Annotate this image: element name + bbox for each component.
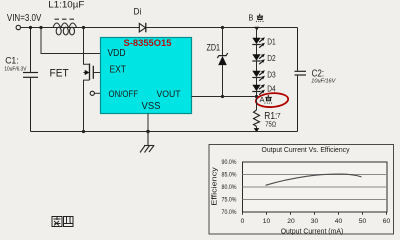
LED D3 <box>252 70 265 80</box>
chart box <box>209 145 394 235</box>
svg-text:B: B <box>249 14 254 23</box>
svg-text:10: 10 <box>263 218 271 225</box>
wire <box>256 45 258 55</box>
highlight ellipse node A <box>255 92 288 108</box>
figure number glyphs <box>52 217 73 227</box>
svg-text:FET: FET <box>50 68 69 80</box>
chart x ticks <box>243 212 387 215</box>
wire top rail left <box>21 27 298 29</box>
op-amp U1 IC S-8355 body <box>101 38 192 114</box>
svg-text:10uF/6.3V: 10uF/6.3V <box>4 67 26 73</box>
node VDD tap <box>39 26 42 29</box>
terminal ON/OFF <box>90 91 94 95</box>
svg-text:S-8355O15: S-8355O15 <box>124 38 173 49</box>
svg-text:VOUT: VOUT <box>157 88 181 99</box>
chart plot area <box>243 162 388 212</box>
zener ZD1 <box>217 28 227 97</box>
node zener bottom <box>221 95 224 98</box>
LED D1 <box>252 37 265 47</box>
svg-text:D1: D1 <box>267 36 276 46</box>
svg-text:30: 30 <box>311 218 319 225</box>
svg-text:EXT: EXT <box>110 64 127 75</box>
wire VSS <box>147 114 149 132</box>
svg-text:80.0%: 80.0% <box>222 184 237 191</box>
capacitor C2 <box>295 28 307 132</box>
resistor R1 <box>254 97 260 132</box>
wire VDD branch <box>41 28 101 54</box>
svg-text:C1:: C1: <box>5 55 18 65</box>
capacitor C1 <box>23 29 38 132</box>
svg-text:50: 50 <box>359 218 367 225</box>
wire <box>256 78 258 86</box>
svg-text:ON/OFF: ON/OFF <box>109 88 139 99</box>
svg-text:VSS: VSS <box>142 101 161 112</box>
svg-text:ZD1: ZD1 <box>207 42 221 52</box>
node B <box>254 27 259 31</box>
node VSS <box>146 130 149 133</box>
svg-text:L1:10µF: L1:10µF <box>48 0 85 10</box>
wire <box>256 61 258 71</box>
node C1 tap <box>29 26 32 29</box>
inductor L1 <box>53 19 77 35</box>
wire ON/OFF <box>95 92 101 94</box>
node A <box>255 95 258 98</box>
svg-text:10uF/16V: 10uF/16V <box>311 79 336 85</box>
svg-text:Output Current (mA): Output Current (mA) <box>281 228 344 235</box>
chart y labels <box>222 159 237 216</box>
node FET source <box>82 130 85 133</box>
svg-text:75.0%: 75.0% <box>222 197 237 204</box>
svg-text:60: 60 <box>383 218 391 225</box>
svg-text:Output Current Vs. Efficiency: Output Current Vs. Efficiency <box>262 147 350 154</box>
label A dian glyph <box>265 95 272 104</box>
wire gate to EXT <box>93 72 100 74</box>
ground <box>140 132 154 153</box>
svg-text:D3: D3 <box>267 69 276 79</box>
wire VOUT to node A <box>192 96 257 98</box>
wire LED string top <box>256 28 258 39</box>
wire <box>256 92 258 97</box>
node zener top <box>221 26 224 29</box>
svg-text:Efficiency: Efficiency <box>212 167 219 206</box>
terminal VIN input <box>16 25 20 29</box>
node drain tap <box>82 26 85 29</box>
svg-text:40: 40 <box>335 218 343 225</box>
svg-text:D4: D4 <box>267 83 276 93</box>
node R1 bottom <box>254 128 260 132</box>
svg-text:75Ω: 75Ω <box>265 119 276 128</box>
svg-text:VDD: VDD <box>108 48 126 59</box>
svg-text:VIN=3.0V: VIN=3.0V <box>7 13 42 24</box>
svg-text:70.0%: 70.0% <box>222 209 237 216</box>
svg-text:20: 20 <box>287 218 295 225</box>
svg-text:90.0%: 90.0% <box>222 159 237 166</box>
transistor FET <box>84 28 94 132</box>
svg-text:Di: Di <box>134 7 142 17</box>
svg-text:7: 7 <box>277 113 281 120</box>
chart x labels <box>241 218 391 225</box>
LED D2 <box>252 54 265 64</box>
diode Di <box>139 23 146 33</box>
svg-text:0: 0 <box>241 218 245 225</box>
svg-text:85.0%: 85.0% <box>222 172 237 179</box>
label B dian glyph <box>256 14 263 22</box>
LED D4 <box>252 84 265 94</box>
chart gridlines <box>243 175 388 200</box>
chart curve <box>266 174 362 185</box>
svg-text:D2: D2 <box>267 53 276 63</box>
wire bottom rail <box>31 131 298 133</box>
